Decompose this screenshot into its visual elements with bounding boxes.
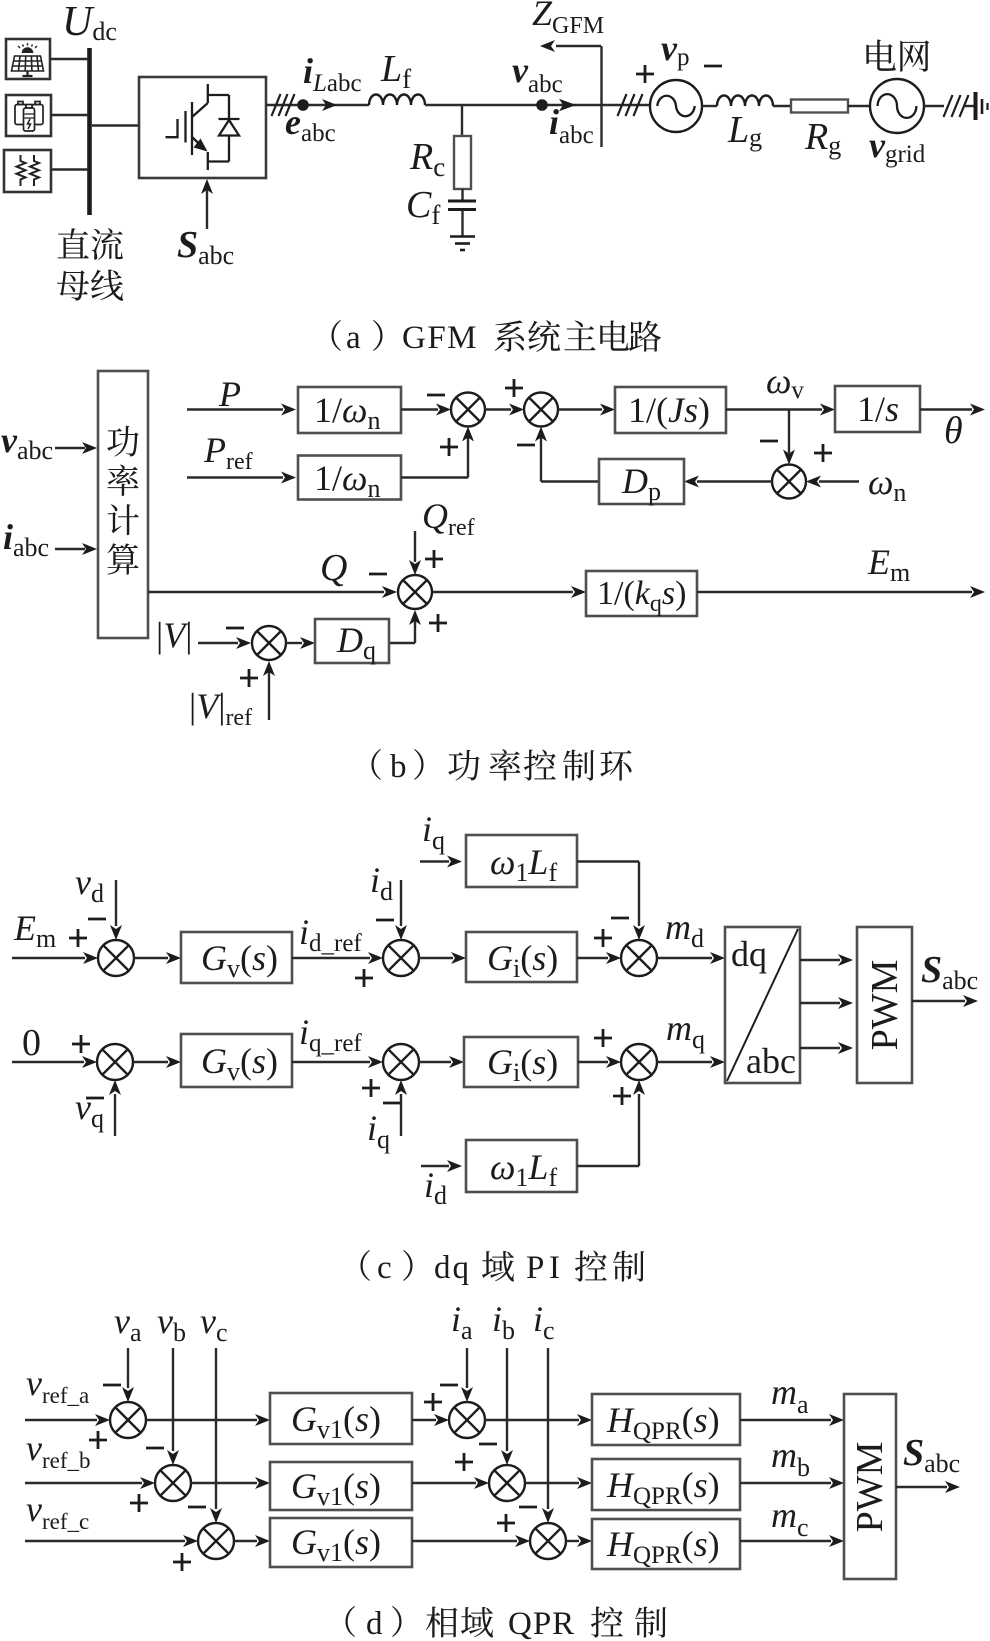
caption c: [360, 1250, 370, 1281]
plus sum1q: [72, 1035, 90, 1053]
inverter box: [139, 77, 266, 178]
summer 2d: [383, 940, 419, 976]
wire L_g to R_g: [773, 105, 791, 107]
plus sumw: [814, 444, 832, 462]
wire battery to bus: [51, 114, 88, 116]
block PWM d: [844, 1394, 896, 1579]
wire v_a down: [127, 1348, 129, 1388]
input 0 wire: [12, 1061, 84, 1063]
arrow i_abc: [559, 99, 576, 111]
wire Gv to sum2d: [292, 957, 370, 959]
plus sumQ top: [425, 550, 443, 568]
minus i_q: [383, 1102, 401, 1105]
wire Q: [148, 591, 384, 593]
wire E_m out: [697, 591, 972, 593]
block Gv d: [181, 932, 292, 983]
plus sign v_p: [636, 65, 654, 83]
caption a: [331, 320, 341, 351]
summer a2: [449, 1402, 485, 1438]
minus sum1: [427, 394, 445, 397]
arrow i_Labc: [322, 99, 337, 111]
svg-text:Gv(s): Gv(s): [201, 1041, 278, 1086]
summer Q: [398, 575, 432, 609]
wire i_d down: [400, 880, 402, 926]
wire v_grid to earth: [924, 105, 944, 107]
battery icon: [15, 102, 43, 132]
summer 1d: [98, 940, 134, 976]
plus b2: [455, 1453, 473, 1471]
three-phase slash marks: [272, 94, 295, 116]
node e_abc dot: [297, 99, 309, 111]
minus a2: [440, 1384, 458, 1387]
block D_q: [315, 619, 389, 663]
svg-text:d: d: [366, 1606, 383, 1641]
block Gv1 c: [270, 1518, 412, 1567]
plus sum3q bottom: [613, 1087, 631, 1105]
wire HQPRb to PWM: [740, 1482, 831, 1484]
wire theta out: [920, 408, 972, 410]
wire c1 to Gv1c: [234, 1540, 257, 1542]
minus sum1d: [88, 918, 106, 921]
wire sum2q to Gi2: [419, 1061, 451, 1063]
wire v_ref_c: [25, 1540, 185, 1542]
summer 3d: [621, 940, 657, 976]
wire C_f to ground: [461, 210, 463, 236]
input E_m wire: [12, 957, 85, 959]
plus sum3d: [594, 929, 612, 947]
block HQPR c: [592, 1519, 740, 1569]
svg-text:GFM: GFM: [402, 320, 478, 356]
summer b2: [489, 1465, 525, 1501]
PV icon: [12, 43, 44, 76]
wire sum1 to sum2: [485, 408, 511, 410]
svg-text:a: a: [346, 320, 361, 356]
plus c2: [497, 1514, 515, 1532]
three-phase slashes grid: [944, 95, 969, 117]
wire Gv1b to sumb2: [412, 1482, 476, 1484]
minus sum2d: [376, 919, 394, 922]
svg-text:0: 0: [22, 1022, 41, 1064]
block Gv1 a: [270, 1393, 412, 1444]
wire Gi to sum3d: [577, 957, 608, 959]
minus sum3d: [611, 917, 629, 920]
power calc box: [98, 371, 148, 638]
block Gv q: [181, 1034, 292, 1087]
wire v_c down: [215, 1348, 217, 1509]
wire sum1q to Gv2: [133, 1061, 168, 1063]
wire i_a down: [466, 1348, 468, 1388]
wire v_q up: [114, 1094, 116, 1136]
svg-text:b: b: [390, 749, 407, 785]
plus sum2: [505, 379, 523, 397]
wire Gv1c to sumc2: [412, 1540, 517, 1542]
summer 2: [524, 393, 558, 427]
minus v_q: [86, 1097, 104, 1100]
label DC bus chinese: [58, 228, 123, 260]
svg-text:Gi(s): Gi(s): [487, 938, 558, 983]
svg-text:PWM: PWM: [849, 1442, 891, 1533]
minus c1: [188, 1506, 206, 1509]
svg-text:P: P: [218, 374, 241, 414]
wire v_d: [115, 880, 117, 926]
plus c1: [173, 1553, 191, 1571]
minus c2: [519, 1506, 537, 1509]
wire sum2d to Gi: [419, 957, 453, 959]
wire sumb2 to HQPRb: [525, 1482, 579, 1484]
wire bus to inverter: [92, 124, 139, 126]
three-phase slashes at PCC: [618, 94, 643, 116]
AC source v_p: [650, 80, 702, 132]
minus b1: [146, 1447, 164, 1450]
wire Pref feedforward: [401, 476, 468, 478]
plus sum2q: [362, 1079, 380, 1097]
wire HQPRc to PWM: [740, 1540, 831, 1542]
free-wheel diode D1: [208, 95, 240, 162]
wire |V|ref: [268, 672, 270, 720]
node v_abc dot: [536, 99, 548, 111]
svg-text:Gv(s): Gv(s): [201, 938, 278, 983]
summer c2: [530, 1523, 566, 1559]
minus sum2: [517, 444, 535, 447]
plus sumQ bottom: [429, 614, 447, 632]
summer 1q: [97, 1044, 133, 1080]
minus sumV: [226, 627, 244, 630]
plus sum3q left: [594, 1029, 612, 1047]
wire suma2 to HQPRa: [485, 1419, 579, 1421]
branch omega_v down: [788, 410, 790, 454]
block Gi d: [466, 932, 577, 982]
wire 1/wn to sum1: [401, 408, 438, 410]
wires dqabc to PWM: [800, 959, 840, 961]
svg-text:dq: dq: [731, 934, 767, 974]
capacitor C_f: [448, 201, 476, 210]
svg-text:P: P: [526, 1250, 544, 1286]
input v_abc: [55, 447, 85, 449]
wire R_c to C_f: [461, 189, 463, 200]
wire L_f to node: [425, 104, 462, 106]
wire S_abc out c: [912, 1000, 965, 1002]
summer b1: [155, 1465, 191, 1501]
svg-text:|V|: |V|: [156, 615, 192, 655]
block 1/s: [835, 386, 920, 432]
IGBT Q1: [166, 84, 208, 170]
wire i_q up: [400, 1094, 402, 1136]
earth ground: [976, 92, 988, 120]
filter branch wire: [461, 105, 463, 136]
input i_abc: [55, 548, 85, 550]
svg-text:QPR: QPR: [508, 1606, 575, 1641]
wire S_abc out d: [896, 1486, 947, 1488]
wire Gv1a to suma2: [412, 1419, 436, 1421]
block dq/abc: [725, 927, 800, 1083]
AC source v_grid: [870, 79, 924, 133]
wire sum3q to dqabc: [657, 1061, 712, 1063]
minus a1: [103, 1384, 121, 1387]
plus sumV: [240, 669, 258, 687]
ground: [450, 237, 475, 251]
wire P: [187, 408, 283, 410]
block 1/wn upper: [298, 387, 401, 433]
svg-text:abc: abc: [746, 1041, 796, 1081]
wire sumc2 to HQPRc: [566, 1540, 579, 1542]
block Gi q: [464, 1037, 578, 1087]
summer omega: [772, 465, 806, 499]
wire Q_ref: [414, 531, 416, 562]
svg-text:c: c: [377, 1250, 392, 1286]
plus a2: [424, 1393, 442, 1411]
Z_GFM measurement line: [600, 46, 602, 147]
block HQPR b: [592, 1459, 740, 1510]
gate drive arrow S_abc: [206, 185, 208, 229]
resistor load box: [4, 150, 51, 192]
inductor L_f: [369, 95, 425, 106]
resistor R_c: [454, 136, 471, 189]
summer 2q: [383, 1044, 419, 1080]
Z_GFM arrow: [556, 45, 601, 47]
plus sum1d: [69, 929, 87, 947]
wire R_g to v_grid: [848, 105, 870, 107]
svg-text:PWM: PWM: [864, 960, 906, 1051]
summer c1: [198, 1523, 234, 1559]
wire i_c down: [547, 1348, 549, 1509]
battery source box: [6, 95, 51, 136]
svg-text:θ: θ: [944, 410, 963, 452]
wire load to bus: [51, 168, 88, 170]
resistor load icon: [17, 155, 40, 186]
inverter output wire: [266, 104, 369, 106]
wire sum1d to Gv: [134, 957, 168, 959]
wire sum2 to Js: [558, 408, 602, 410]
svg-text:Gi(s): Gi(s): [487, 1042, 558, 1087]
wire Js out: [726, 408, 822, 410]
minus sign v_p: [704, 65, 722, 68]
block D_p: [599, 459, 684, 504]
block 1/(kq s): [586, 571, 697, 616]
minus b2: [479, 1443, 497, 1446]
wire |V| input: [198, 642, 238, 644]
minus sumQ: [369, 573, 387, 576]
caption d: [345, 1606, 355, 1637]
svg-text:1/(kqs): 1/(kqs): [597, 575, 686, 617]
wire HQPRa to PWM: [740, 1419, 831, 1421]
plus b1: [130, 1494, 148, 1512]
wire iq to w1Lf top: [420, 860, 449, 862]
svg-text:I: I: [549, 1250, 560, 1286]
block 1/wn lower: [298, 456, 401, 500]
block PWM c: [857, 927, 912, 1083]
inductor L_g: [717, 96, 773, 106]
wire to earth: [964, 105, 975, 107]
wire Gi2 to sum3q: [578, 1061, 608, 1063]
wire id to w1Lf bottom: [421, 1165, 449, 1167]
minus sumw: [760, 440, 778, 443]
plus sum2d: [355, 969, 373, 987]
wire omega_n input: [819, 480, 859, 482]
caption b: [371, 749, 381, 780]
svg-text:1/(Js): 1/(Js): [628, 390, 710, 430]
DC bus: [87, 48, 92, 215]
block 1/(Js): [615, 387, 726, 433]
block Gv1 b: [270, 1462, 412, 1510]
wire a1 to Gv1a: [146, 1419, 257, 1421]
PV source box: [6, 39, 50, 79]
plus sum1: [440, 438, 458, 456]
block HQPR a: [592, 1394, 740, 1445]
plus a1: [89, 1431, 107, 1449]
label power-calc chinese: [107, 426, 138, 457]
block w1Lf top: [466, 835, 577, 887]
wire PV to bus: [50, 58, 88, 60]
wire node to v_p: [462, 104, 651, 106]
wire w1Lf2 to sum3q: [577, 1165, 639, 1167]
wire i_b down: [506, 1348, 508, 1451]
wire v_ref_a: [25, 1419, 97, 1421]
wire v_p to L_g: [702, 105, 717, 107]
wire sumQ to kq: [433, 591, 573, 593]
wire b1 to Gv1b: [191, 1482, 257, 1484]
wire Gv2 to sum2q: [292, 1061, 370, 1063]
svg-text:dq: dq: [434, 1250, 471, 1286]
svg-text:Q: Q: [320, 547, 347, 589]
wire sum3d to dqabc: [657, 957, 712, 959]
summer a1: [110, 1402, 146, 1438]
summer 3q: [621, 1044, 657, 1080]
summer V: [252, 626, 286, 660]
label grid chinese: [866, 40, 896, 71]
wire sumV to Dq: [286, 642, 302, 644]
svg-text:1/s: 1/s: [857, 389, 899, 429]
wire Dq to sumQ: [389, 642, 415, 644]
wire sumw to Dp: [697, 480, 772, 482]
wire v_b down: [172, 1348, 174, 1451]
wire Dp to sum2: [541, 480, 599, 482]
wire w1Lf to sum3d: [577, 860, 639, 862]
wire P_ref: [187, 476, 283, 478]
block w1Lf bottom: [466, 1140, 577, 1192]
resistor R_g: [791, 100, 848, 113]
wire v_ref_b: [25, 1482, 142, 1484]
summer 1: [451, 393, 485, 427]
